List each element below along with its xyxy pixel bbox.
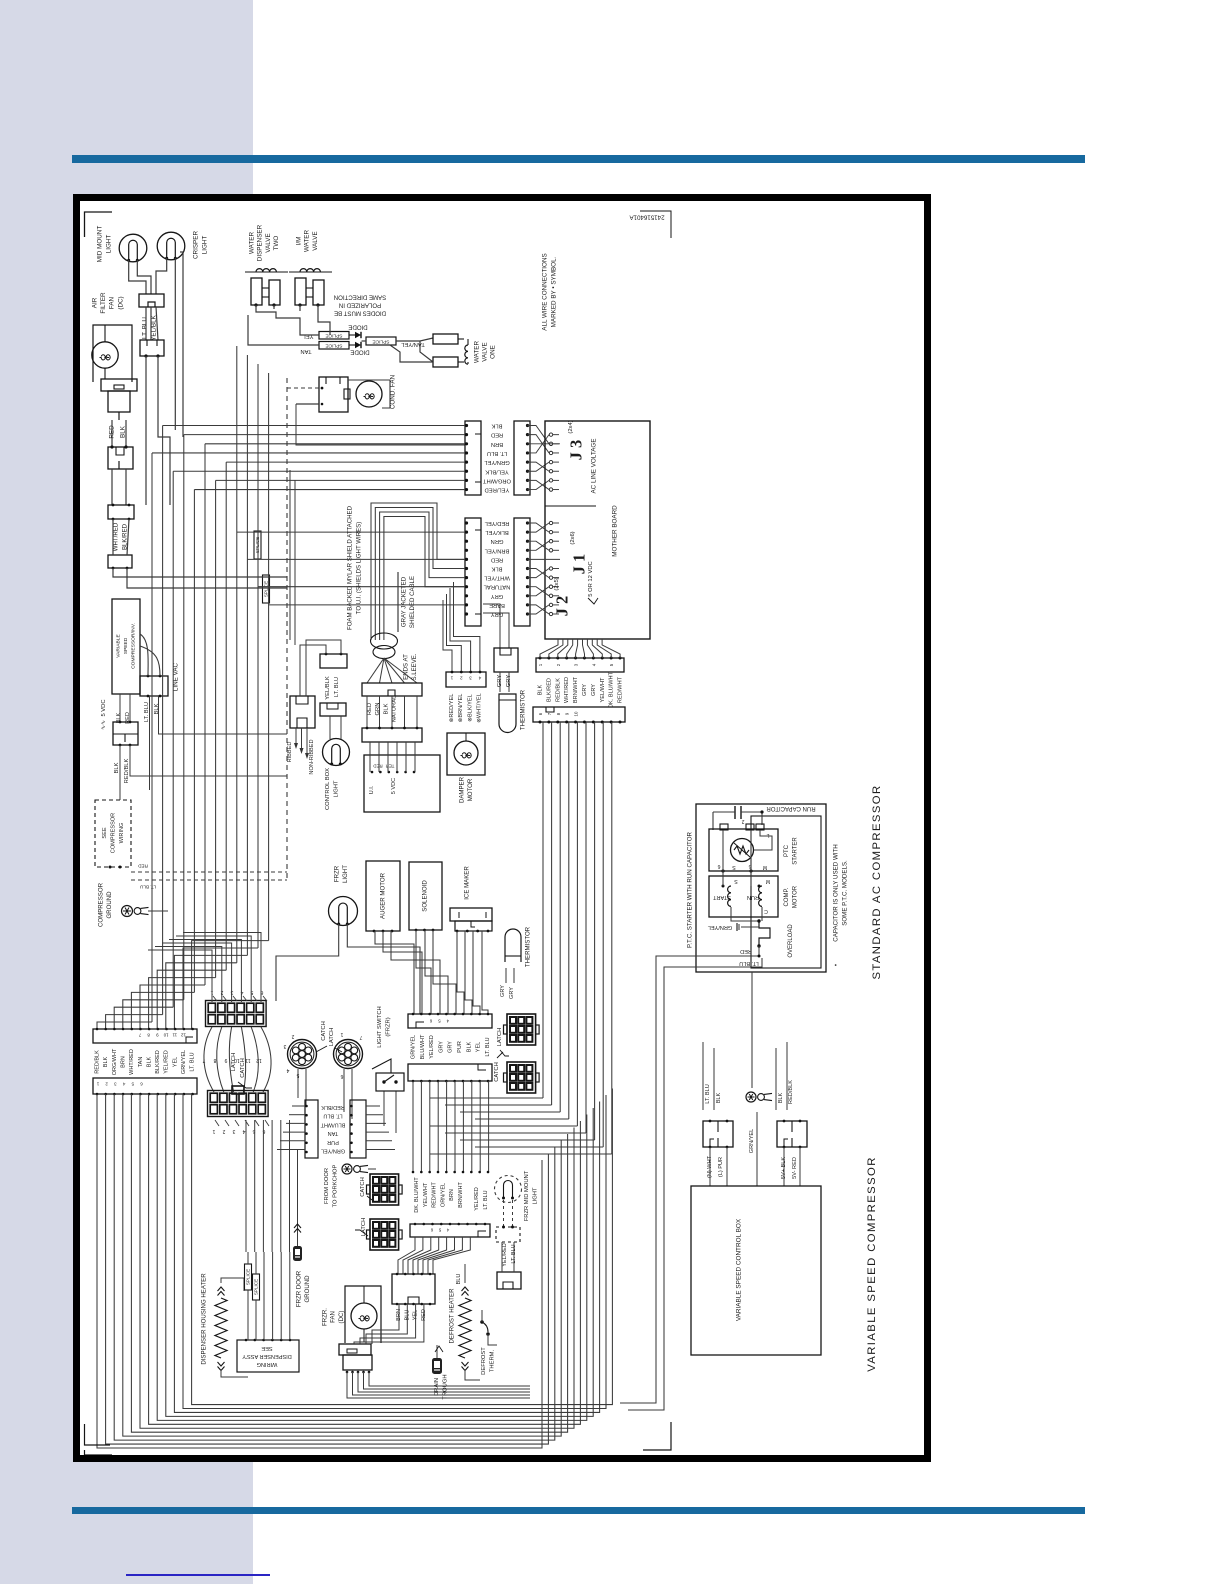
lamp CRISPER LIGHT bulb bbox=[157, 232, 185, 260]
svg-text:LT. BLU: LT. BLU bbox=[142, 317, 149, 339]
svg-text:LT. BLU: LT. BLU bbox=[190, 1052, 196, 1071]
J1 crossover wires bbox=[465, 521, 560, 615]
labels BLK RED/BLK terminals bbox=[776, 1042, 794, 1110]
label FROM DOOR TO PORKCHOP bbox=[324, 1165, 339, 1208]
svg-text:DK. BLU/WHT: DK. BLU/WHT bbox=[609, 671, 615, 708]
overload protector bbox=[757, 919, 794, 957]
pin numbers 1-6 bbox=[210, 989, 267, 1001]
labels 7-12 with leaders bbox=[202, 1057, 261, 1063]
svg-text:LIGHT SWITCH: LIGHT SWITCH bbox=[377, 1006, 383, 1047]
svg-text:GRY: GRY bbox=[500, 985, 506, 997]
solenoid: WATER DISPENSER VALVE TWO label bbox=[249, 224, 281, 261]
svg-text:J 3: J 3 bbox=[567, 440, 586, 461]
svg-text:WHT/RED: WHT/RED bbox=[129, 1049, 135, 1075]
svg-text:TAN: TAN bbox=[138, 1057, 144, 1068]
svg-text:SPLICE: SPLICE bbox=[254, 1279, 259, 1295]
wires to dispenser box bbox=[246, 1120, 290, 1340]
svg-text:RUN: RUN bbox=[747, 894, 759, 900]
labels BRN BLU YEL RED bbox=[396, 1309, 427, 1321]
circular connector CATCH bbox=[283, 1033, 316, 1078]
labels door harness wires bbox=[95, 1048, 196, 1075]
svg-text:YEL/BLK: YEL/BLK bbox=[485, 468, 509, 474]
ground wire PTC to VSC bbox=[751, 972, 753, 1088]
wires cond fan bbox=[287, 387, 465, 445]
svg-text:TO PORKCHOP: TO PORKCHOP bbox=[333, 1165, 339, 1208]
labels YEL TAN TAN/YEL bbox=[300, 333, 424, 354]
splice S2 bbox=[319, 342, 349, 350]
svg-text:3: 3 bbox=[469, 676, 472, 681]
sleeve bar connector bbox=[362, 683, 422, 696]
svg-text:⊗WHT/YEL: ⊗WHT/YEL bbox=[477, 693, 483, 723]
splice S3 bbox=[366, 337, 396, 345]
svg-text:THERMISTOR: THERMISTOR bbox=[525, 926, 532, 967]
svg-text:LATCH: LATCH bbox=[497, 1028, 503, 1047]
svg-text:9: 9 bbox=[156, 1033, 159, 1038]
switch: LIGHT SWITCH (FRZR) bbox=[372, 1006, 404, 1091]
splice on harness S1b bbox=[254, 531, 261, 559]
svg-text:DIODE: DIODE bbox=[350, 349, 369, 356]
label ICE MAKER bbox=[464, 866, 471, 900]
SEE COMPRESSOR WIRING dashed box bbox=[95, 800, 131, 867]
note CAPACITOR ONLY USED bbox=[833, 844, 849, 966]
labels CATCH LATCH (circular) bbox=[316, 1021, 342, 1052]
dashed harness boundary line bbox=[286, 378, 288, 882]
frame corner tick (bottom-right) bbox=[643, 1422, 671, 1450]
svg-text:6: 6 bbox=[717, 863, 720, 869]
connector strip: door harness lower bbox=[93, 1078, 197, 1095]
svg-text:BLK/RED: BLK/RED bbox=[546, 678, 552, 702]
wires frzr fan out bbox=[347, 1372, 530, 1398]
labels YEL/RED LT. BLU (frzr light) bbox=[502, 1243, 517, 1267]
svg-text:RIBBED: RIBBED bbox=[287, 742, 293, 763]
PTC pin labels bbox=[717, 818, 769, 873]
svg-text:6: 6 bbox=[140, 1082, 143, 1087]
svg-text:(2x5): (2x5) bbox=[554, 577, 560, 590]
DEFROST THERM bbox=[480, 1310, 497, 1375]
svg-text:5: 5 bbox=[609, 663, 614, 666]
svg-text:BLK/YEL: BLK/YEL bbox=[484, 529, 508, 535]
svg-text:TER: TER bbox=[386, 764, 395, 769]
svg-text:7: 7 bbox=[138, 1033, 141, 1038]
svg-text:DISPENSER ASS'Y: DISPENSER ASS'Y bbox=[242, 1353, 292, 1359]
svg-text:10: 10 bbox=[574, 711, 579, 716]
svg-text:4: 4 bbox=[591, 663, 596, 666]
heater: DISPENSER HOUSING HEATER bbox=[201, 1273, 249, 1377]
svg-text:WHT/YEL: WHT/YEL bbox=[483, 575, 510, 581]
svg-text:4: 4 bbox=[446, 1019, 449, 1024]
svg-text:GRY: GRY bbox=[509, 987, 515, 999]
label: AIR FILTER FAN (DC) bbox=[92, 292, 125, 314]
crossing wires between 2x6 grids bbox=[204, 1027, 271, 1094]
label GRN/YEL + wire bbox=[749, 1112, 757, 1186]
svg-text:BLK: BLK bbox=[114, 762, 120, 773]
harness risers to PTC feed bbox=[620, 956, 701, 1410]
svg-text:GRN/YEL: GRN/YEL bbox=[708, 924, 733, 930]
svg-text:BRN/YEL: BRN/YEL bbox=[484, 547, 510, 553]
svg-text:ONE: ONE bbox=[490, 345, 497, 359]
water dispenser valve two coil bbox=[245, 269, 288, 272]
svg-text:GRN/YEL: GRN/YEL bbox=[411, 1035, 417, 1059]
svg-text:FRZR DOOR: FRZR DOOR bbox=[296, 1270, 303, 1307]
svg-text:M: M bbox=[766, 878, 770, 884]
label RUN CAPACITOR (rotated) bbox=[766, 805, 816, 811]
svg-text:AIR: AIR bbox=[92, 297, 99, 308]
wires grid upper up bbox=[148, 933, 261, 1003]
wire light switch down bbox=[384, 1091, 396, 1133]
svg-text:NON-RIBBED: NON-RIBBED bbox=[309, 739, 315, 774]
svg-text:COND. FAN: COND. FAN bbox=[390, 374, 397, 409]
water dispenser valve two body bbox=[251, 278, 280, 307]
svg-text:11: 11 bbox=[245, 1057, 250, 1063]
svg-text:5: 5 bbox=[438, 1019, 441, 1024]
svg-text:(DC): (DC) bbox=[338, 1311, 345, 1324]
motor: COND. FAN bbox=[348, 380, 390, 408]
label: RED BLK bbox=[109, 425, 127, 439]
svg-text:P.T.C. STARTER WITH RUN CAPACI: P.T.C. STARTER WITH RUN CAPACITOR bbox=[687, 831, 694, 947]
svg-text:(FRZR): (FRZR) bbox=[385, 1017, 391, 1036]
motor: DAMPER MOTOR bbox=[447, 733, 485, 775]
connector vsc right bbox=[777, 1120, 807, 1149]
svg-text:RED: RED bbox=[740, 948, 752, 954]
note: ALL WIRE CONNECTIONS MARKED BY symbol bbox=[542, 253, 558, 330]
svg-text:9: 9 bbox=[565, 712, 570, 715]
svg-text:BLK: BLK bbox=[146, 1056, 152, 1067]
connector J3 header (right) bbox=[514, 421, 530, 495]
door ground screw bbox=[342, 1164, 376, 1174]
wires thermistor bbox=[500, 672, 509, 692]
svg-text:BLK: BLK bbox=[778, 1092, 784, 1103]
thermistor (fresh food) connector bbox=[494, 648, 518, 672]
svg-text:BLK: BLK bbox=[154, 703, 160, 714]
UI wire strip bbox=[362, 727, 422, 742]
svg-text:4: 4 bbox=[122, 1082, 125, 1087]
connector: fan plug bbox=[108, 420, 133, 469]
svg-text:PTC: PTC bbox=[784, 844, 790, 857]
label LINE VAC bbox=[173, 662, 180, 691]
svg-text:6: 6 bbox=[430, 1228, 433, 1233]
svg-text:S.LEEVE.: S.LEEVE. bbox=[411, 653, 418, 680]
heater: DEFROST HEATER bbox=[449, 1264, 481, 1380]
svg-text:J 2: J 2 bbox=[553, 596, 572, 617]
svg-text:CATCH: CATCH bbox=[240, 1058, 246, 1078]
svg-text:VALVE: VALVE bbox=[482, 342, 489, 361]
labels J2 wires bbox=[538, 671, 624, 708]
VARIABLE SPEED CONTROL BOX bbox=[691, 1186, 821, 1355]
svg-text:(L) PUR: (L) PUR bbox=[718, 1157, 724, 1177]
door harness wires down-left bbox=[97, 1089, 612, 1449]
svg-text:I/M: I/M bbox=[296, 237, 303, 246]
svg-text:LIGHT: LIGHT bbox=[532, 1187, 538, 1205]
label DIODE (lower) bbox=[350, 349, 369, 356]
harness sweep to door connector strip bbox=[97, 941, 269, 1029]
svg-text:ENDS AT: ENDS AT bbox=[403, 654, 410, 680]
PTC STARTER box bbox=[709, 824, 778, 871]
connector grid 3x3 LATCH (freezer) bbox=[497, 1014, 539, 1056]
svg-text:POLARIZED IN: POLARIZED IN bbox=[339, 302, 381, 309]
ribbed connector bbox=[287, 696, 315, 775]
svg-text:TWO: TWO bbox=[273, 236, 280, 251]
svg-text:DEFROST: DEFROST bbox=[481, 1347, 487, 1375]
connector LINE VAC bbox=[140, 634, 168, 697]
svg-text:PUR: PUR bbox=[457, 1041, 463, 1053]
labels PTC STARTER / COMP MOTOR bbox=[784, 837, 799, 909]
svg-text:1: 1 bbox=[340, 1031, 343, 1037]
labels J1 wires bbox=[483, 520, 510, 617]
svg-text:BLU/WHT: BLU/WHT bbox=[320, 1121, 345, 1127]
svg-text:12: 12 bbox=[256, 1057, 262, 1063]
labels RED GRN BLK NATURAL bbox=[367, 695, 398, 722]
svg-text:TAN/YEL: TAN/YEL bbox=[400, 341, 425, 347]
svg-text:LT. BLU: LT. BLU bbox=[487, 450, 507, 456]
wires plug2 down bbox=[146, 356, 170, 505]
svg-text:3: 3 bbox=[574, 663, 579, 666]
svg-text:5 OR 12 VDC: 5 OR 12 VDC bbox=[588, 561, 594, 596]
svg-text:4: 4 bbox=[286, 1067, 289, 1073]
svg-text:DISPENSER: DISPENSER bbox=[257, 224, 264, 261]
svg-text:M: M bbox=[763, 864, 767, 870]
i/m water valve coil bbox=[289, 269, 332, 272]
label: WATER VALVE ONE bbox=[474, 341, 497, 363]
svg-text:FAN: FAN bbox=[109, 296, 116, 309]
labels RED LT. BLU + feed wires bbox=[701, 946, 762, 967]
svg-text:RED: RED bbox=[491, 556, 503, 562]
air filter fan base bbox=[101, 379, 137, 420]
air filter fan assembly bbox=[92, 325, 132, 382]
svg-text:CATCH: CATCH bbox=[360, 1177, 366, 1197]
svg-text:6: 6 bbox=[429, 1019, 432, 1024]
svg-text:CAPACITOR IS ONLY USED WITH: CAPACITOR IS ONLY USED WITH bbox=[833, 844, 840, 942]
svg-text:BLK/RED: BLK/RED bbox=[155, 1050, 161, 1074]
svg-text:2: 2 bbox=[291, 1033, 294, 1039]
svg-text:DEFROST HEATER: DEFROST HEATER bbox=[449, 1288, 456, 1344]
splice on harness S2b bbox=[263, 575, 270, 603]
svg-text:VALVE: VALVE bbox=[312, 231, 319, 250]
svg-text:1: 1 bbox=[450, 676, 453, 681]
svg-text:YEL/RED: YEL/RED bbox=[164, 1050, 170, 1074]
svg-text:7: 7 bbox=[547, 712, 552, 715]
connector J1 receptacle (left) bbox=[465, 518, 481, 626]
svg-text:DISPENSER HOUSING HEATER: DISPENSER HOUSING HEATER bbox=[201, 1273, 208, 1365]
svg-text:GRAY JACKETED: GRAY JACKETED bbox=[401, 576, 408, 627]
svg-text:VARIABLE SPEED CONTROL BOX: VARIABLE SPEED CONTROL BOX bbox=[736, 1218, 743, 1321]
condenser fan connector bbox=[319, 377, 350, 412]
svg-text:COMPRESSOR: COMPRESSOR bbox=[98, 882, 105, 927]
label: LT. BLU / YEL/BLK bbox=[142, 314, 158, 340]
label THERMISTOR bbox=[520, 689, 527, 730]
FRZR DOOR GROUND clamp bbox=[293, 1150, 302, 1261]
svg-text:(2x4): (2x4) bbox=[568, 420, 574, 433]
svg-text:STARTER: STARTER bbox=[793, 837, 799, 865]
labels door wires (rotated) bbox=[320, 1104, 345, 1154]
svg-text:8: 8 bbox=[556, 712, 561, 715]
svg-text:12: 12 bbox=[181, 1033, 186, 1038]
svg-text:LT. BLU: LT. BLU bbox=[334, 677, 340, 697]
wires circular connectors down bbox=[298, 1069, 352, 1119]
solenoid: I/M WATER VALVE label bbox=[296, 230, 319, 252]
svg-text:GROUND: GROUND bbox=[304, 1275, 311, 1303]
svg-text:RED: RED bbox=[373, 764, 382, 769]
svg-text:GRY: GRY bbox=[582, 684, 588, 696]
connector damper plug bbox=[446, 671, 486, 687]
labels damper wires bbox=[449, 693, 483, 723]
connector grid 3x3 LATCH (door) bbox=[355, 1218, 402, 1250]
svg-text:LIGHT: LIGHT bbox=[106, 235, 113, 254]
svg-text:THERMISTOR: THERMISTOR bbox=[520, 689, 527, 730]
labels GRY GRY (freezer therm) bbox=[500, 968, 515, 999]
svg-text:3: 3 bbox=[232, 1128, 235, 1134]
svg-text:SPLICE: SPLICE bbox=[372, 339, 389, 345]
start winding bbox=[713, 885, 731, 907]
svg-text:RED/YEL: RED/YEL bbox=[484, 520, 510, 526]
DRAIN TROUGH clamp bbox=[432, 1345, 448, 1400]
svg-text:J 1: J 1 bbox=[570, 554, 589, 575]
frame corner tick (top-left) bbox=[85, 212, 113, 237]
svg-text:2: 2 bbox=[741, 818, 744, 824]
svg-text:2: 2 bbox=[222, 1128, 225, 1134]
bus horizontal runs to freezer strips bbox=[430, 1098, 612, 1154]
wires compressor plug down bbox=[120, 745, 287, 800]
svg-text:GRY: GRY bbox=[438, 1041, 444, 1053]
J3 crossover wires bbox=[465, 424, 560, 491]
label FRZR DOOR GROUND bbox=[296, 1270, 312, 1307]
svg-text:•: • bbox=[834, 964, 840, 966]
svg-text:GRY: GRY bbox=[491, 611, 504, 617]
lamp: MID MOUNT LIGHT label bbox=[97, 226, 113, 263]
svg-text:C: C bbox=[764, 908, 768, 914]
svg-text:ORG/WHT: ORG/WHT bbox=[112, 1048, 118, 1075]
svg-text:GRN/YEL: GRN/YEL bbox=[749, 1129, 755, 1154]
svg-text:YEL/RED: YEL/RED bbox=[474, 1187, 480, 1211]
svg-text:YEL/WHT: YEL/WHT bbox=[423, 1182, 429, 1207]
svg-text:BLU/WHT: BLU/WHT bbox=[420, 1034, 426, 1059]
connector strip freezer upper bbox=[408, 1013, 492, 1028]
svg-text:WATER: WATER bbox=[304, 230, 311, 252]
circular connector LATCH bbox=[334, 1031, 363, 1079]
svg-text:SEE: SEE bbox=[261, 1345, 272, 1351]
svg-text:BRN: BRN bbox=[491, 441, 503, 447]
svg-text:CRISPER: CRISPER bbox=[193, 231, 200, 259]
svg-text:LIGHT: LIGHT bbox=[342, 865, 349, 883]
svg-text:⊗BRN/YEL: ⊗BRN/YEL bbox=[458, 694, 464, 723]
svg-text:RED/WHT: RED/WHT bbox=[618, 676, 624, 703]
svg-text:LT. BLU: LT. BLU bbox=[483, 1190, 489, 1209]
note: DIODES MUST BE POLARIZED IN SAME DIRECTION (rotated) bbox=[334, 294, 386, 317]
connector grid 3x3 CATCH (freezer) bbox=[494, 1052, 539, 1093]
label FRZR MID MOUNT LIGHT bbox=[524, 1170, 538, 1221]
svg-text:MARKED BY • SYMBOL.: MARKED BY • SYMBOL. bbox=[551, 256, 558, 327]
diode D2 bbox=[349, 342, 361, 348]
svg-text:2: 2 bbox=[460, 676, 463, 681]
svg-text:RED: RED bbox=[137, 864, 147, 869]
svg-text:FRZR: FRZR bbox=[334, 865, 341, 882]
freezer wiring mesh to strip bbox=[375, 930, 488, 1014]
svg-text:S: S bbox=[734, 878, 738, 884]
run capacitor symbol bbox=[713, 806, 764, 830]
vsc ground screw bbox=[746, 1092, 772, 1102]
svg-text:LT. BLU: LT. BLU bbox=[323, 1113, 342, 1119]
connector: WATER VALVE ONE bbox=[433, 334, 468, 367]
svg-text:FROM DOOR: FROM DOOR bbox=[324, 1168, 330, 1204]
labels (N) WHT (L) PUR bbox=[707, 1155, 724, 1178]
svg-text:TAN: TAN bbox=[300, 348, 311, 354]
svg-text:CONTROL BOX: CONTROL BOX bbox=[325, 768, 331, 810]
diode D1 bbox=[349, 332, 361, 338]
connector FROM DOOR right bbox=[350, 1100, 366, 1158]
part number 241516401A (rotated 180) bbox=[629, 211, 671, 238]
connector J1 header (right) bbox=[514, 518, 530, 626]
compressor ground screw bbox=[122, 906, 169, 917]
svg-text:BLU: BLU bbox=[456, 1274, 462, 1285]
svg-text:YEL: YEL bbox=[476, 1042, 482, 1052]
svg-text:MOTHER BOARD: MOTHER BOARD bbox=[612, 505, 619, 557]
dashed wires from compressor box bbox=[109, 864, 288, 890]
lamp MID MOUNT LIGHT bulb bbox=[119, 234, 147, 262]
connector J2 plug bbox=[533, 707, 625, 724]
connector control box light plug bbox=[320, 703, 346, 716]
connector vsc left bbox=[703, 1120, 733, 1149]
svg-text:WATER: WATER bbox=[249, 232, 256, 254]
shield fan-out wires bbox=[367, 658, 417, 683]
svg-text:7: 7 bbox=[359, 1034, 362, 1040]
labels LATCH CATCH (grid) bbox=[231, 1053, 252, 1088]
svg-text:COMPRESSOR: COMPRESSOR bbox=[110, 813, 116, 853]
wires from lamps to door connector bbox=[129, 252, 183, 437]
connector WHT/RED BLK/RED upper bbox=[108, 504, 134, 521]
splice S1 bbox=[319, 332, 349, 340]
connector grid 3x3 CATCH (door) bbox=[360, 1174, 402, 1205]
svg-text:8: 8 bbox=[213, 1057, 216, 1063]
svg-text:VARIABLE SPEED COMPRESSOR: VARIABLE SPEED COMPRESSOR bbox=[866, 1156, 878, 1372]
svg-text:FRZR.: FRZR. bbox=[322, 1308, 329, 1326]
svg-text:PUR: PUR bbox=[327, 1139, 339, 1145]
svg-text:YEL: YEL bbox=[172, 1057, 178, 1067]
second thermistor capsule (freezer) bbox=[505, 926, 532, 967]
thermistor GRY wires to J1 bbox=[483, 604, 509, 648]
labels LT. BLU BLK terminals bbox=[703, 1042, 722, 1110]
connector grid 2x6 lower bbox=[208, 1091, 269, 1117]
svg-text:4: 4 bbox=[446, 1228, 449, 1233]
svg-text:SPEED: SPEED bbox=[123, 637, 129, 654]
svg-text:WIRING: WIRING bbox=[119, 823, 125, 844]
svg-text:5: 5 bbox=[438, 1228, 441, 1233]
motor pin labels bbox=[734, 878, 770, 914]
label: COND. FAN bbox=[390, 374, 397, 409]
svg-text:DAMPER: DAMPER bbox=[459, 776, 466, 803]
svg-text:SPLICE: SPLICE bbox=[325, 343, 342, 349]
svg-text:BRN: BRN bbox=[449, 1189, 455, 1201]
svg-text:CATCH: CATCH bbox=[321, 1021, 327, 1041]
PTC resistor circle bbox=[731, 839, 754, 862]
svg-text:BLK: BLK bbox=[383, 703, 389, 714]
svg-text:1: 1 bbox=[538, 663, 543, 666]
svg-text:11: 11 bbox=[172, 1033, 177, 1038]
svg-text:TROUGH: TROUGH bbox=[442, 1374, 448, 1399]
P.T.C. STARTER outer box bbox=[696, 804, 826, 972]
svg-text:LT. BLU: LT. BLU bbox=[485, 1037, 491, 1056]
svg-text:RED/BLK: RED/BLK bbox=[321, 1104, 345, 1110]
svg-text:GROUND: GROUND bbox=[106, 891, 113, 919]
labels freezer harness right bbox=[414, 1177, 489, 1213]
label 5 VDC with tilde bbox=[101, 699, 107, 730]
label J1 (2x6) bbox=[570, 531, 589, 574]
svg-text:2: 2 bbox=[105, 1082, 108, 1087]
svg-text:WHT/RED: WHT/RED bbox=[564, 677, 570, 703]
lamp: CONTROL BOX LIGHT bbox=[323, 716, 350, 810]
wires into yel/blk connector bbox=[290, 470, 341, 696]
shielded cable nested loops bbox=[371, 503, 465, 640]
ribbed connector arrow wires bbox=[294, 728, 309, 759]
svg-text:∿∿: ∿∿ bbox=[101, 720, 107, 730]
